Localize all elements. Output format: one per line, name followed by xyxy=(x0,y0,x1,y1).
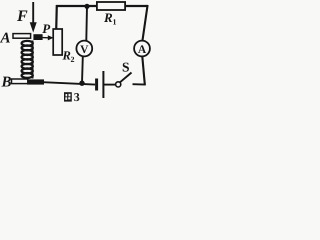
node junction bottom (V branch) xyxy=(79,81,84,86)
wire V branch top xyxy=(85,6,88,41)
slider arm wire xyxy=(43,37,49,39)
svg-text:P: P xyxy=(42,21,51,36)
wire left vertical to R2 xyxy=(55,5,58,30)
wire V branch bottom xyxy=(81,57,84,84)
svg-text:S: S xyxy=(122,60,130,75)
force F arrowhead xyxy=(30,22,37,32)
wire right vertical bottom xyxy=(142,57,145,85)
voltmeter V xyxy=(76,41,92,57)
svg-text:2: 2 xyxy=(71,55,75,64)
svg-text:3: 3 xyxy=(74,90,80,104)
terminal bar B filled xyxy=(27,79,44,84)
battery short plate xyxy=(95,79,98,91)
spring rod right edge xyxy=(32,41,34,79)
svg-text:A: A xyxy=(138,44,147,56)
resistor R1 xyxy=(97,2,125,10)
svg-text:R: R xyxy=(103,10,113,25)
force F arrow shaft xyxy=(32,2,34,24)
svg-text:B: B xyxy=(1,74,12,90)
wire right vertical top xyxy=(142,5,147,41)
spring coil xyxy=(22,41,33,78)
resistor R2 xyxy=(53,29,62,55)
svg-text:A: A xyxy=(0,30,11,46)
switch pivot xyxy=(116,82,121,87)
caption figure glyph 图 xyxy=(64,92,72,101)
wire top rail xyxy=(56,5,148,7)
wire bottom rail xyxy=(43,82,95,84)
terminal bar B outlined xyxy=(12,79,28,84)
battery long plate xyxy=(102,71,104,98)
node junction top (V branch) xyxy=(84,4,89,9)
wire bottom right segment xyxy=(133,83,146,85)
platform bar A outlined xyxy=(13,34,31,39)
platform bar A filled xyxy=(33,34,42,40)
svg-text:1: 1 xyxy=(113,18,117,27)
svg-text:R: R xyxy=(62,49,71,63)
wire switch to battery xyxy=(104,84,115,86)
switch S lever xyxy=(120,73,132,83)
svg-text:F: F xyxy=(16,8,28,25)
svg-text:V: V xyxy=(80,44,89,56)
ammeter A xyxy=(134,41,150,57)
slider arrowhead at P xyxy=(48,35,54,40)
